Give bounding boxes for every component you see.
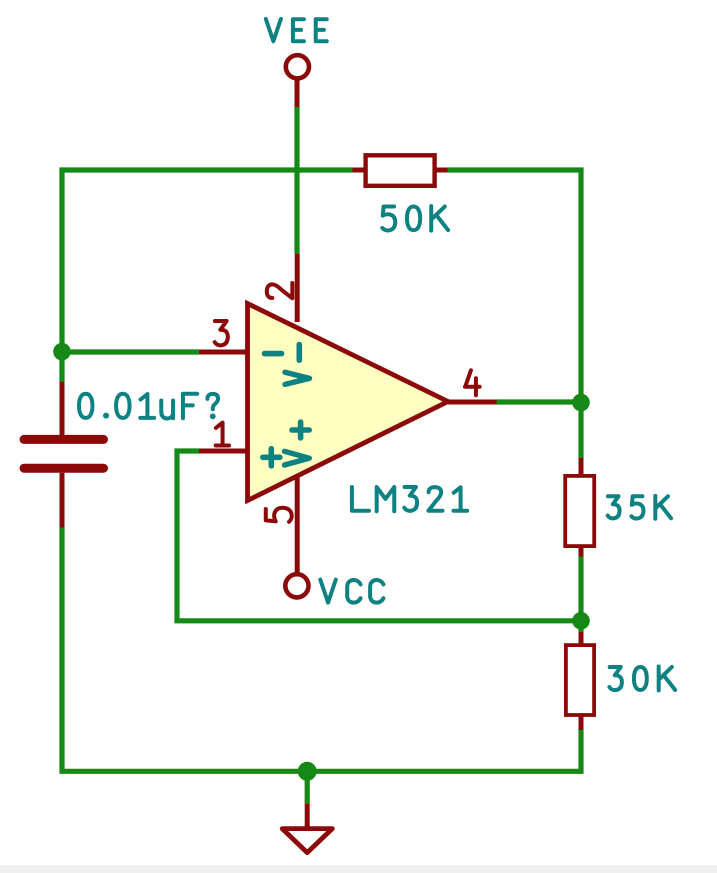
- net label VEE: [266, 19, 327, 41]
- op-amp pin 4 (output): [448, 400, 497, 405]
- value 30K: [609, 667, 675, 691]
- op-amp pin 3 (inverting input): [199, 350, 248, 355]
- capacitor 0.01uF leads: [60, 382, 65, 528]
- resistor 30K leads: [579, 632, 584, 730]
- power symbol VCC circle: [285, 574, 308, 597]
- bottom gray strip: [0, 866, 717, 873]
- resistor 50K body: [366, 155, 435, 186]
- wire: right rail between 35K and 30K: [578, 556, 583, 632]
- wire: feedback net from 35K/30K node to pin 1: [177, 451, 581, 621]
- wire: 50K right side to right rail, down to 35K: [448, 170, 582, 458]
- capacitor 0.01uF plates: [24, 439, 104, 468]
- pin number 1: [216, 423, 229, 446]
- pin number 5 (rotated): [266, 508, 292, 522]
- power symbol VEE pin: [295, 79, 300, 107]
- resistor 35K leads: [579, 458, 584, 557]
- op-amp pin 2 (top, V-): [295, 254, 300, 322]
- pin number 2 (rotated): [267, 283, 293, 298]
- pin number 3: [215, 321, 228, 345]
- wire: inverting input net to pin 3: [62, 349, 199, 354]
- wire: left rail below capacitor, bottom net, up to 30K: [62, 528, 581, 772]
- net label VCC: [320, 580, 383, 603]
- resistor 50K leads: [353, 168, 448, 173]
- node: junction at inverting input / capacitor: [53, 343, 71, 361]
- wire: VEE vertical down to op-amp pin 2: [294, 107, 299, 254]
- value 0.01uF?: [79, 394, 218, 419]
- op-amp V- mark (pin 2, rotated): [296, 345, 302, 361]
- op-amp minus mark (pin 3): [265, 351, 282, 357]
- node: junction 35K/30K feedback: [572, 612, 590, 630]
- node: junction at op-amp output: [572, 394, 590, 412]
- value 35K: [608, 496, 671, 519]
- part LM321: [352, 487, 467, 511]
- op-amp plus mark (pin 1): [263, 449, 280, 466]
- op-amp pin 5 (bottom, V+): [295, 476, 300, 572]
- op-amp V+ mark (pin 5, rotated): [292, 422, 309, 438]
- resistor 35K body: [565, 476, 594, 546]
- resistor 30K body: [566, 645, 594, 715]
- wire: top net from 50K left to left rail and down to capacitor: [62, 170, 353, 382]
- wire: op-amp output to right rail: [496, 399, 581, 404]
- op-amp U1 LM321 triangle body: [248, 304, 449, 501]
- node: junction at ground: [298, 762, 317, 781]
- power symbol VEE circle: [286, 55, 309, 78]
- ground symbol triangle: [282, 829, 332, 853]
- value 50K: [382, 206, 448, 231]
- wire: ground stub: [305, 771, 310, 804]
- pin number 4: [465, 370, 480, 395]
- ground symbol pin: [305, 804, 310, 829]
- op-amp pin 1 (non-inverting input): [199, 449, 248, 454]
